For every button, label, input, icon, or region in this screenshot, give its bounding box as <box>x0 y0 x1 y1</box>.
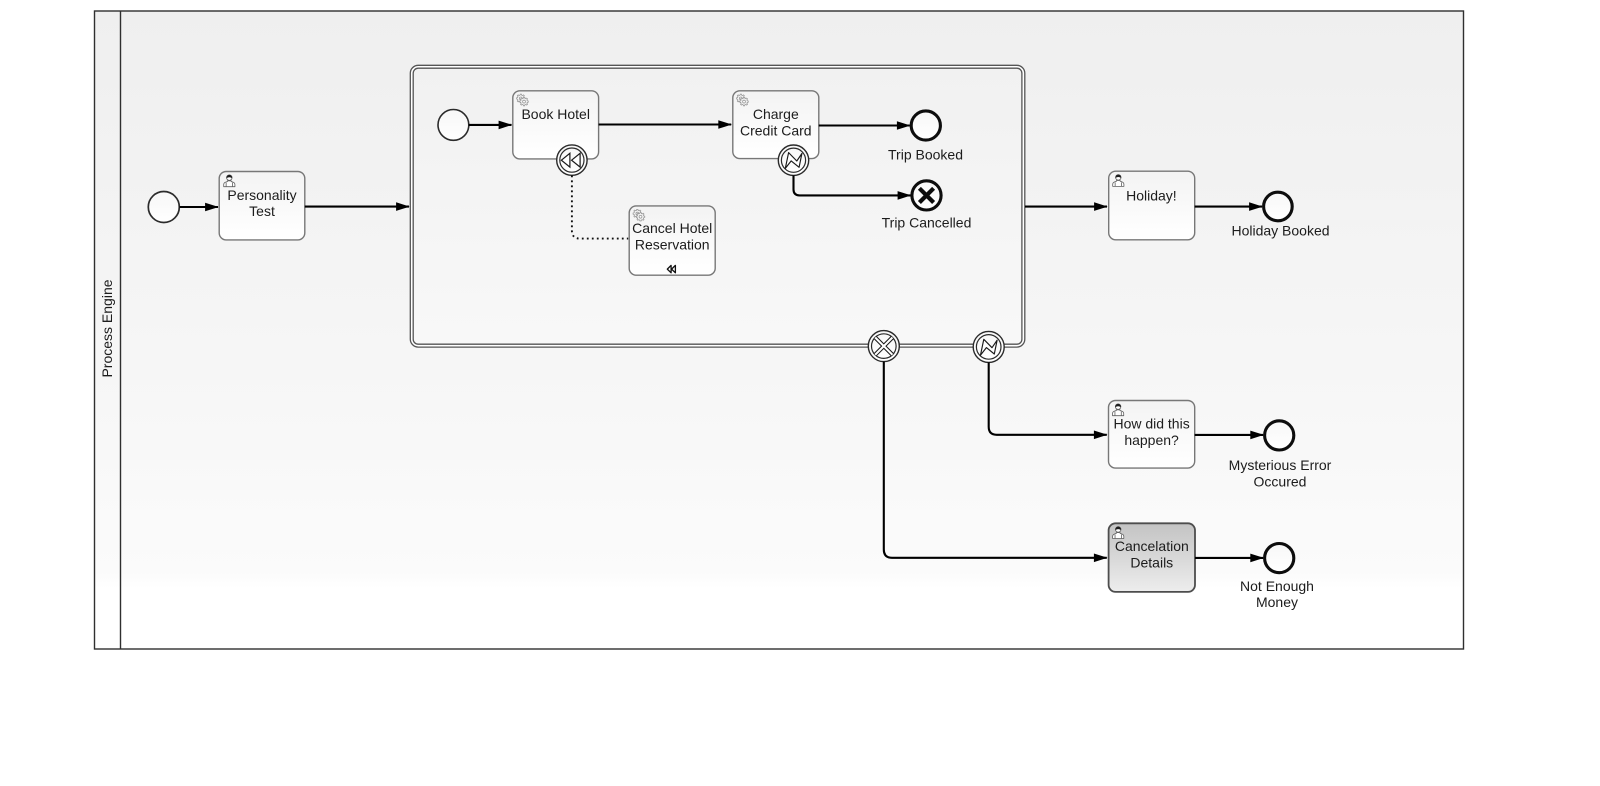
user task "Holiday!" <box>1109 171 1195 240</box>
error boundary event (on Charge Credit Card) <box>778 145 808 175</box>
sequence flow: How did this happen? to Mysterious Error Occured <box>1195 434 1264 436</box>
service task "Charge Credit Card" <box>733 91 819 159</box>
svg-text:Occured: Occured <box>1254 473 1307 489</box>
sequence flow: cancel boundary to Cancelation Details <box>884 362 1107 558</box>
sequence flow: Charge Credit Card to Trip Booked <box>819 124 910 126</box>
svg-text:Reservation: Reservation <box>635 237 710 253</box>
sequence flow: Personality Test to transaction subprocess <box>305 206 409 208</box>
compensation boundary event (on Book Hotel) <box>557 145 587 175</box>
svg-text:Details: Details <box>1130 554 1173 570</box>
svg-text:Trip Booked: Trip Booked <box>888 147 963 163</box>
end event "Not Enough Money" <box>1240 544 1314 611</box>
svg-text:happen?: happen? <box>1124 432 1179 448</box>
sequence flow: start event to Personality Test <box>180 206 219 208</box>
svg-text:Trip Cancelled: Trip Cancelled <box>882 214 972 230</box>
svg-text:Cancelation: Cancelation <box>1115 538 1189 554</box>
end event "Trip Booked" <box>888 111 963 163</box>
svg-text:Credit Card: Credit Card <box>740 122 812 138</box>
sequence flow: Cancelation Details to Not Enough Money <box>1195 557 1263 559</box>
sequence flow: subprocess to Holiday! <box>1025 206 1107 208</box>
sequence flow: Holiday! to Holiday Booked <box>1195 206 1262 208</box>
association (dotted): compensation boundary to Cancel Hotel Reservation <box>572 175 628 238</box>
svg-text:Holiday Booked: Holiday Booked <box>1231 222 1329 238</box>
svg-text:Cancel Hotel: Cancel Hotel <box>632 220 712 236</box>
user task "How did this happen?" <box>1109 401 1195 469</box>
svg-text:Process Engine: Process Engine <box>99 279 115 377</box>
end event "Holiday Booked" <box>1231 192 1329 238</box>
transaction subprocess (double border) <box>410 65 1025 347</box>
svg-text:Personality: Personality <box>227 187 296 203</box>
sequence flow: Book Hotel to Charge Credit Card <box>599 123 732 125</box>
service task "Book Hotel" <box>513 91 599 159</box>
user task "Cancelation Details" (highlighted gray) <box>1109 523 1195 592</box>
sequence flow: error boundary to How did this happen? <box>989 362 1107 434</box>
svg-text:Holiday!: Holiday! <box>1126 187 1177 203</box>
sequence flow: inner start to Book Hotel <box>469 124 512 126</box>
svg-text:Book Hotel: Book Hotel <box>521 106 589 122</box>
svg-text:Test: Test <box>249 203 275 219</box>
end event "Mysterious Error Occured" <box>1229 421 1332 490</box>
user task "Personality Test" <box>219 172 305 240</box>
svg-text:Mysterious Error: Mysterious Error <box>1229 457 1332 473</box>
service task "Cancel Hotel Reservation" with compensation marker <box>629 206 715 275</box>
start event (inside transaction) <box>438 110 469 141</box>
pool "Process Engine" <box>95 11 1464 649</box>
svg-text:Not Enough: Not Enough <box>1240 578 1314 594</box>
svg-text:Charge: Charge <box>753 106 799 122</box>
cancel boundary event (on subprocess bottom) <box>868 331 899 362</box>
start event <box>148 192 179 223</box>
error boundary event (on subprocess bottom) <box>973 331 1004 362</box>
svg-text:Money: Money <box>1256 594 1298 610</box>
svg-text:How did this: How did this <box>1113 416 1189 432</box>
cancel end event "Trip Cancelled" <box>882 181 972 231</box>
sequence flow: error boundary to Trip Cancelled <box>794 175 911 195</box>
